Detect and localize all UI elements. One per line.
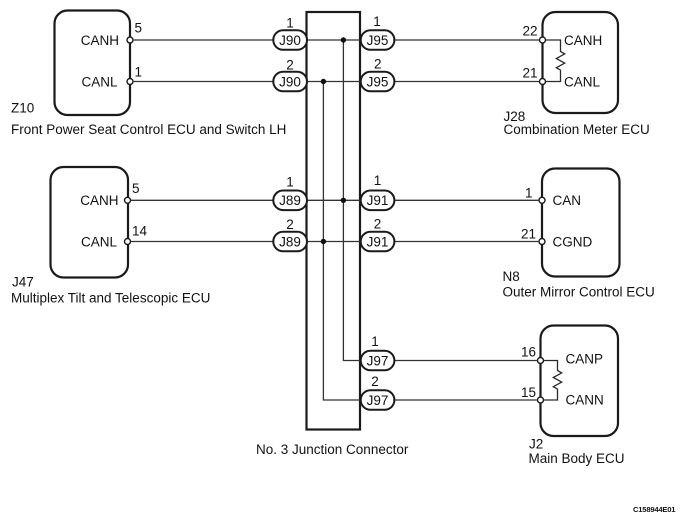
wire J95-1 to J28 pin 22 (CANH)	[394, 39, 540, 41]
svg-text:1: 1	[371, 334, 379, 349]
svg-text:CANL: CANL	[81, 234, 118, 249]
svg-text:J91: J91	[367, 193, 389, 208]
wire J95-2 to J28 pin 21 (CANL)	[394, 81, 540, 83]
connector J97 pin 1 (oval)	[361, 334, 395, 370]
pin 22 of J28 (CANH)	[522, 24, 545, 44]
wire J90-2 through junction to J95-2 (CANL)	[306, 81, 361, 83]
svg-text:J47: J47	[12, 275, 34, 290]
svg-text:Outer Mirror Control ECU: Outer Mirror Control ECU	[503, 285, 655, 300]
svg-text:CANL: CANL	[81, 74, 118, 89]
pin 21 of J28 (CANL)	[522, 66, 545, 85]
wire J97-1 to J2 pin 16 (CANP)	[394, 360, 538, 362]
wire J89-1 through junction to J91-1 (CANH)	[306, 199, 361, 201]
pin 1 of Z10 (CANL)	[127, 65, 142, 85]
junction dot CANH bus row 1	[341, 37, 346, 42]
junction dot CANH bus row 3	[341, 198, 346, 203]
svg-text:1: 1	[525, 186, 533, 201]
svg-text:J95: J95	[367, 74, 389, 89]
svg-text:CANH: CANH	[564, 33, 602, 48]
ECU J2 Main Body ECU (box)	[541, 326, 619, 437]
Z10 designator label	[11, 101, 286, 138]
svg-text:CANP: CANP	[566, 352, 604, 367]
svg-text:2: 2	[374, 217, 382, 232]
No. 3 Junction Connector label	[256, 442, 409, 457]
svg-text:Multiplex Tilt and Telescopic: Multiplex Tilt and Telescopic ECU	[11, 291, 210, 306]
svg-text:Combination Meter ECU: Combination Meter ECU	[504, 122, 650, 137]
connector J91 pin 2 (oval)	[361, 217, 395, 252]
svg-text:16: 16	[521, 345, 536, 360]
wire J91-1 to N8 pin 1 (CAN)	[394, 199, 539, 201]
J2 designator label	[529, 437, 625, 467]
svg-text:14: 14	[132, 224, 148, 239]
wire Z10 pin 1 to J90-2 (CANL)	[133, 81, 274, 83]
terminating resistor inside J2	[544, 361, 562, 401]
CANL bus bar inside junction connector	[323, 82, 361, 401]
wire J90-1 through junction to J95-1 (CANH)	[306, 39, 361, 41]
pin 1 of N8 (CAN)	[525, 186, 545, 204]
svg-text:15: 15	[521, 385, 536, 400]
connector J91 pin 1 (oval)	[361, 173, 395, 210]
svg-text:Z10: Z10	[11, 101, 34, 116]
wire Z10 pin 5 to J90-1 (CANH)	[133, 39, 274, 41]
svg-text:J91: J91	[367, 234, 389, 249]
svg-text:1: 1	[286, 15, 294, 30]
svg-text:J95: J95	[367, 33, 389, 48]
svg-text:Front Power Seat Control ECU a: Front Power Seat Control ECU and Switch …	[11, 122, 286, 137]
svg-text:2: 2	[371, 374, 379, 389]
figure code C158944E01	[633, 505, 676, 514]
wire J47 pin 14 to J89-2 (CANL)	[131, 241, 274, 243]
ECU J47 Multiplex Tilt and Telescopic ECU (box)	[51, 167, 129, 278]
ECU J28 Combination Meter ECU (box)	[543, 12, 619, 113]
CANH bus bar inside junction connector	[343, 40, 361, 361]
pin 5 of J47 (CANH)	[125, 181, 140, 203]
ECU Z10 Front Power Seat Control ECU and Switch LH (box)	[55, 11, 131, 116]
pin 5 of Z10 (CANH)	[127, 21, 142, 44]
junction dot CANL bus row 2	[321, 79, 326, 84]
svg-text:J89: J89	[279, 234, 301, 249]
wire J97-2 to J2 pin 15 (CANN)	[394, 399, 538, 401]
connector J90 pin 2 (oval)	[273, 58, 307, 92]
svg-text:5: 5	[132, 181, 140, 196]
svg-text:CANH: CANH	[81, 33, 119, 48]
svg-text:J89: J89	[279, 193, 301, 208]
svg-text:1: 1	[286, 174, 294, 189]
J28 designator label	[504, 109, 650, 137]
wire J89-2 through junction to J91-2 (CANL)	[306, 241, 361, 243]
svg-text:2: 2	[374, 57, 382, 72]
svg-text:J97: J97	[367, 393, 389, 408]
svg-text:J90: J90	[279, 33, 301, 48]
No. 3 Junction Connector (box)	[307, 12, 361, 430]
svg-text:CANL: CANL	[564, 74, 601, 89]
svg-text:CAN: CAN	[553, 193, 582, 208]
junction dot CANL bus row 4	[321, 239, 326, 244]
svg-text:2: 2	[286, 58, 294, 73]
N8 designator label	[503, 269, 655, 300]
pin 15 of J2 (CANN)	[521, 385, 544, 403]
pin 21 of N8 (CGND)	[521, 227, 545, 245]
svg-text:J90: J90	[279, 74, 301, 89]
svg-text:21: 21	[521, 227, 536, 242]
svg-text:CANN: CANN	[566, 393, 604, 408]
svg-text:2: 2	[286, 217, 294, 232]
svg-text:No. 3 Junction Connector: No. 3 Junction Connector	[256, 442, 409, 457]
svg-text:1: 1	[135, 65, 143, 80]
connector J95 pin 1 (oval)	[361, 14, 395, 50]
svg-text:1: 1	[374, 173, 382, 188]
svg-text:22: 22	[522, 24, 537, 39]
connector J89 pin 1 (oval)	[273, 174, 307, 210]
connector J97 pin 2 (oval)	[361, 374, 395, 410]
ECU N8 Outer Mirror Control ECU (box)	[542, 169, 620, 277]
svg-text:J97: J97	[367, 353, 389, 368]
wire J91-2 to N8 pin 21 (CGND)	[394, 241, 539, 243]
wire J47 pin 5 to J89-1 (CANH)	[131, 199, 274, 201]
connector J90 pin 1 (oval)	[273, 15, 307, 50]
connector J95 pin 2 (oval)	[361, 57, 395, 92]
svg-text:J2: J2	[529, 437, 543, 452]
svg-text:N8: N8	[503, 269, 520, 284]
svg-text:21: 21	[522, 66, 537, 81]
svg-text:C158944E01: C158944E01	[633, 505, 676, 514]
connector J89 pin 2 (oval)	[273, 217, 307, 251]
svg-text:Main Body ECU: Main Body ECU	[529, 451, 625, 466]
svg-text:CGND: CGND	[553, 234, 593, 249]
svg-text:5: 5	[135, 21, 143, 36]
svg-text:CANH: CANH	[80, 193, 118, 208]
terminating resistor inside J28	[546, 40, 565, 82]
J47 designator label	[11, 275, 210, 306]
pin 16 of J2 (CANP)	[521, 345, 544, 364]
pin 14 of J47 (CANL)	[125, 224, 148, 245]
svg-text:1: 1	[373, 14, 381, 29]
